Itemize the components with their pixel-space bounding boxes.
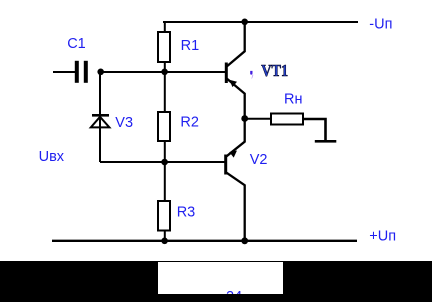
junction dot: C1 / V3 node [97, 69, 104, 76]
svg-text:Rн: Rн [284, 91, 303, 107]
label V2 [250, 152, 268, 168]
wire: R1 top lead from top rail [164, 21, 166, 32]
wire: top -Up rail [163, 21, 358, 23]
capacitor C1 [75, 61, 88, 83]
wire: R2 bottom lead [164, 141, 166, 162]
svg-text:VT1: VT1 [261, 61, 288, 80]
svg-text:R3: R3 [177, 205, 196, 221]
wire: V3 anode vertical segment overlay [99, 116, 101, 161]
transistor VT1 collector (diagonal + vertical to top rail) [227, 22, 245, 66]
wire: R3 top lead [164, 162, 166, 201]
transistor VT1 base bar [225, 63, 228, 84]
wire: R3 bottom lead [164, 231, 166, 241]
label Uvx (input) [39, 149, 65, 165]
transistor V2 emitter arrow (points away from base, NPN) [229, 151, 237, 158]
svg-text:-Uп: -Uп [369, 17, 392, 33]
resistor R2 [158, 112, 170, 141]
junction dot: R1/R2/VT1-base node [161, 69, 168, 76]
label R2 [180, 115, 199, 131]
transistor V2 base bar [224, 155, 227, 175]
wire: C1 left terminal stub [53, 71, 75, 73]
svg-text:V3: V3 [115, 115, 133, 131]
diode V3 (cathode bar) [92, 114, 109, 117]
svg-text:+Uп: +Uп [369, 229, 396, 245]
label V3 [115, 115, 133, 131]
resistor R1 [158, 32, 170, 62]
wire: R1 bottom lead [164, 62, 166, 72]
svg-text:C1: C1 [67, 36, 86, 52]
bottom black band [0, 261, 432, 302]
wire: bottom +Up rail [52, 240, 357, 242]
ground symbol bar [315, 140, 337, 143]
transistor VT1 emitter arrow (points toward base, PNP) [229, 80, 237, 87]
diode V3 (anode triangle) [91, 117, 110, 128]
label C1 [67, 36, 86, 52]
svg-text:R2: R2 [180, 115, 199, 131]
wire: R2 top lead [164, 72, 166, 112]
junction dot: R2/R3/V2-base node [161, 159, 168, 166]
label R1 [181, 38, 200, 54]
wire: Rn to ground corner [303, 119, 326, 140]
junction dot: VT1 collector on top rail [241, 19, 248, 26]
svg-text:R1: R1 [181, 38, 200, 54]
wire: output node to Rn [245, 118, 271, 120]
svg-text:V2: V2 [250, 152, 268, 168]
junction dot: R3 to bottom rail [161, 238, 168, 245]
label +Up (bottom supply) [369, 229, 396, 245]
label R3 [177, 205, 196, 221]
transistor VT1 emitter (diagonal + vertical to output node) [227, 79, 245, 119]
resistor R3 [158, 201, 170, 231]
junction dot: V2 collector on bottom rail [241, 237, 248, 244]
junction dot: output node (emitters / Rn) [241, 115, 248, 122]
label VT1 [261, 61, 288, 80]
svg-text:Uвх: Uвх [39, 149, 65, 165]
transistor V2 collector (diagonal + vertical to bottom rail) [227, 173, 245, 241]
wire: vertical from C1 node down through V3 to lower base line [99, 72, 101, 162]
wire: VT1 base wire from C1 junction through R1/R2 node [100, 71, 225, 73]
resistor Rn (load) [271, 114, 303, 125]
label Rn [284, 91, 303, 107]
label comma mark before VT1 [250, 71, 253, 79]
caption white box with clipped page number 24 [158, 262, 283, 294]
label -Up (top supply) [369, 17, 392, 33]
wire: lower horizontal (V3 node to V2 base) [100, 161, 225, 163]
transistor V2 emitter (diagonal + vertical up to output node) [227, 119, 245, 157]
